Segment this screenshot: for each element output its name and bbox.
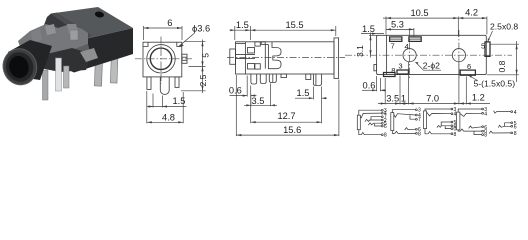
top notch blocks xyxy=(255,42,260,46)
svg-text:10.5: 10.5 xyxy=(410,8,428,18)
svg-text:8: 8 xyxy=(514,131,517,137)
svg-text:8: 8 xyxy=(484,133,487,139)
wire to pin 3 xyxy=(359,110,382,115)
pins left xyxy=(43,70,49,100)
terminals S2 xyxy=(416,109,418,111)
svg-text:5.3: 5.3 xyxy=(391,20,404,30)
svg-text:2.5x0.8: 2.5x0.8 xyxy=(490,21,518,31)
svg-text:6: 6 xyxy=(467,62,471,71)
flange line xyxy=(386,35,388,74)
switch to pin 4 xyxy=(460,113,482,116)
wire pin 7 xyxy=(371,117,381,121)
dim 3.5 xyxy=(250,94,252,106)
svg-text:4.8: 4.8 xyxy=(162,112,175,122)
svg-text:3.1: 3.1 xyxy=(355,45,365,57)
svg-text:3.5: 3.5 xyxy=(252,96,265,106)
switch to pin 4 xyxy=(394,114,416,118)
switch to pin 4 xyxy=(360,113,381,118)
centerline xyxy=(227,57,345,59)
svg-text:8: 8 xyxy=(418,131,421,137)
left top step xyxy=(236,43,246,45)
pad 4 xyxy=(409,37,421,42)
dim 1.5 right xyxy=(312,87,314,100)
svg-text:4: 4 xyxy=(514,110,517,116)
wire to pin 3 xyxy=(458,109,482,112)
sleeve S4 xyxy=(457,112,460,130)
dim 15.6 xyxy=(235,75,237,136)
centerline circle 1 xyxy=(409,30,411,80)
dim 12.7 xyxy=(321,99,323,123)
top hole xyxy=(94,11,104,19)
contact fork xyxy=(268,42,281,69)
center pin xyxy=(160,77,169,95)
dim 1.5 / 15.5 top xyxy=(234,26,236,40)
dim 10.5 / 4.2 xyxy=(385,17,387,35)
pin 2 xyxy=(260,74,266,84)
hole circle 2 xyxy=(452,49,465,62)
dim 4.8 xyxy=(146,91,148,123)
bracket pins 5/6 xyxy=(505,123,511,127)
svg-text:5: 5 xyxy=(481,41,485,50)
switch pin 6 xyxy=(405,128,416,130)
switch pin 6 xyxy=(469,126,482,128)
pins right xyxy=(94,50,102,86)
dim 3.1 xyxy=(369,34,378,36)
switch to pin 8 xyxy=(425,129,451,134)
svg-text:6: 6 xyxy=(167,18,172,28)
contact stack left xyxy=(248,48,255,54)
svg-text:3.5: 3.5 xyxy=(386,94,399,104)
terminals S3 xyxy=(451,108,453,110)
body rect xyxy=(377,35,487,74)
right flange xyxy=(334,38,339,79)
pin 5 xyxy=(313,74,321,86)
wire bottom pin xyxy=(474,131,482,134)
corner step right xyxy=(177,42,182,46)
dark contact cluster xyxy=(38,48,92,72)
corner step left xyxy=(143,42,148,46)
dim 5.3 xyxy=(413,28,415,37)
svg-text:7: 7 xyxy=(391,41,395,50)
dim 1.5 bottom xyxy=(152,94,154,108)
switch to pin 8 xyxy=(359,130,382,135)
switch to pin 8 xyxy=(458,129,482,131)
left stub xyxy=(230,49,236,64)
small foot xyxy=(281,74,287,78)
wire pin 7 xyxy=(410,115,416,119)
inner vertical line xyxy=(244,42,246,74)
svg-text:2.5: 2.5 xyxy=(198,74,208,86)
wire pin 6 xyxy=(375,124,382,126)
pad 5 xyxy=(485,42,490,57)
pin 1 xyxy=(251,74,257,84)
svg-text:7: 7 xyxy=(418,117,421,123)
pin 4 step xyxy=(306,74,311,80)
photo of 3.5mm jack connector xyxy=(0,7,133,100)
svg-text:4: 4 xyxy=(484,111,487,117)
bracket pins 5/6 xyxy=(441,122,451,126)
left edge pad xyxy=(374,65,377,71)
inner tube lines xyxy=(236,54,256,56)
svg-text:ϕ3.6: ϕ3.6 xyxy=(192,24,210,34)
svg-text:2-ϕ2: 2-ϕ2 xyxy=(423,61,440,71)
dim 0.6 left bottom xyxy=(376,76,378,91)
switch to pin 8 xyxy=(489,131,511,133)
centerline circle 2 xyxy=(458,30,460,80)
terminals S5 xyxy=(511,111,513,113)
sleeve S2 xyxy=(391,113,394,131)
sleeve S1 xyxy=(357,115,360,130)
svg-text:4.2: 4.2 xyxy=(465,8,478,18)
svg-text:15.5: 15.5 xyxy=(285,20,303,30)
dim 5 / 2.5 right side xyxy=(184,40,206,42)
centerline vertical xyxy=(160,37,162,84)
wire pin 2 xyxy=(365,119,382,121)
barrel xyxy=(8,40,52,80)
svg-text:8: 8 xyxy=(454,132,457,138)
svg-text:8: 8 xyxy=(384,133,387,139)
wire pin 0 xyxy=(445,126,451,129)
svg-text:7.0: 7.0 xyxy=(426,93,439,103)
wire to pin 3 xyxy=(392,110,415,113)
dim 0.6 xyxy=(246,76,248,97)
left clip wedge xyxy=(44,14,87,44)
pad 7 xyxy=(390,37,402,42)
svg-text:1.5: 1.5 xyxy=(362,24,375,34)
dim 6 xyxy=(143,26,145,40)
centerline horizontal xyxy=(135,58,194,60)
top face xyxy=(51,7,133,39)
svg-text:15.6: 15.6 xyxy=(283,125,301,135)
pad 6 xyxy=(460,70,475,75)
wire to pin 3 xyxy=(425,109,451,111)
switch into bracket xyxy=(498,125,504,127)
outer circle xyxy=(147,45,175,73)
front body square xyxy=(143,42,182,77)
right pin xyxy=(175,77,179,88)
svg-text:0.6: 0.6 xyxy=(229,85,242,95)
inner circle (phi 3.6) xyxy=(150,48,171,69)
switch pin 5 xyxy=(368,123,381,125)
svg-text:12.7: 12.7 xyxy=(277,111,295,121)
centerline horizontal xyxy=(345,54,512,56)
pad 3 xyxy=(397,70,408,74)
svg-text:4: 4 xyxy=(454,112,457,118)
bottom chain dims xyxy=(384,78,386,104)
pad 8 xyxy=(384,73,396,77)
pin 3 xyxy=(269,74,276,83)
left pin xyxy=(147,77,151,90)
svg-text:6: 6 xyxy=(384,124,387,130)
terminals S4 xyxy=(482,108,484,110)
hole circle 1 xyxy=(403,49,416,62)
right tab xyxy=(182,54,187,63)
lower notch block xyxy=(255,64,260,69)
sleeve S3 xyxy=(424,111,427,129)
svg-text:8: 8 xyxy=(391,66,395,75)
svg-text:1.5: 1.5 xyxy=(297,88,310,98)
terminals S1 xyxy=(381,109,383,111)
svg-text:4: 4 xyxy=(405,42,409,51)
svg-text:0.6: 0.6 xyxy=(363,81,376,91)
svg-text:6: 6 xyxy=(514,124,517,130)
wire to pin 8 xyxy=(392,131,415,134)
metal flange band xyxy=(18,24,88,58)
svg-text:1.2: 1.2 xyxy=(472,92,485,102)
front face xyxy=(60,28,133,73)
svg-text:3: 3 xyxy=(398,62,402,71)
switch to pin 4 xyxy=(427,112,451,116)
svg-text:5-(1.5x0.5): 5-(1.5x0.5) xyxy=(474,79,516,89)
svg-text:1: 1 xyxy=(401,93,406,103)
svg-text:5: 5 xyxy=(201,53,211,58)
body xyxy=(236,42,335,74)
svg-text:1.5: 1.5 xyxy=(236,20,249,30)
svg-text:0.8: 0.8 xyxy=(497,60,507,72)
dim 0.8 right xyxy=(491,43,520,45)
switch into bracket xyxy=(437,125,441,127)
switch to pin 4 xyxy=(494,111,511,114)
